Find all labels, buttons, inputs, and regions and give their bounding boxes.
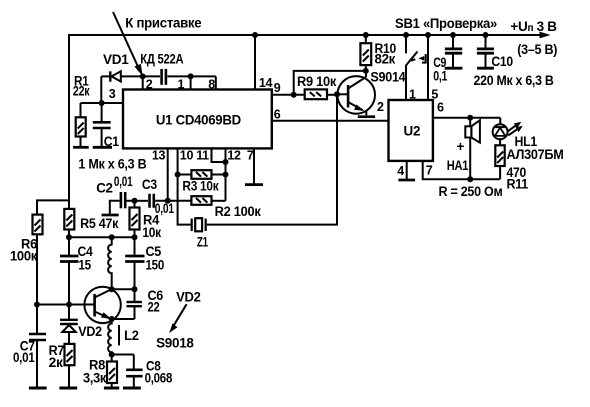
svg-text:10: 10: [180, 149, 194, 163]
svg-text:22к: 22к: [73, 84, 90, 99]
wire U2 pin7 to bottom rail: [423, 161, 500, 179]
capacitor (pin2-pin1): [160, 69, 163, 85]
node junction at 190.6,76.4: [188, 73, 194, 79]
svg-text:SB1 «Проверка»: SB1 «Проверка»: [395, 16, 497, 31]
op-amp U1: [123, 90, 272, 149]
svg-text:Z1: Z1: [197, 234, 209, 249]
wire top supply rail: [69, 34, 543, 36]
capacitor C2: [110, 201, 120, 214]
ground under U2 pin4: [398, 179, 415, 182]
svg-text:220 Мк х 6,3 В: 220 Мк х 6,3 В: [474, 73, 554, 88]
node junction at 69,304.5: [66, 302, 72, 308]
LED HL1: [499, 118, 501, 125]
svg-text:0,01: 0,01: [114, 174, 133, 189]
node junction at 428,35: [425, 32, 431, 38]
node +Un arrowhead: [540, 32, 551, 39]
wire base column to Z1: [207, 94, 337, 224]
svg-text:6: 6: [437, 101, 444, 115]
svg-text:R5 47к: R5 47к: [80, 216, 119, 231]
node junction at 69,237.2: [66, 234, 72, 240]
wire pin12 stem: [225, 148, 227, 200]
capacitor C9: [452, 35, 454, 48]
node junction at 142.7,76.4: [140, 73, 146, 79]
svg-text:C1: C1: [104, 134, 120, 149]
svg-text:82к: 82к: [375, 51, 396, 66]
emitter bar: [358, 115, 375, 118]
svg-text:0,068: 0,068: [145, 371, 173, 386]
node junction at 470.2,179.3: [467, 176, 473, 182]
ground under C10: [477, 67, 494, 70]
svg-text:7: 7: [247, 149, 254, 163]
svg-text:7: 7: [426, 163, 433, 177]
ground under C8: [123, 387, 141, 390]
wire C6 to emitter: [112, 318, 135, 320]
resistor R11: [495, 145, 504, 166]
wire pin7 stem: [253, 148, 255, 183]
svg-text:VD1: VD1: [103, 52, 129, 67]
speaker HA1: [469, 118, 471, 127]
svg-text:U1 CD4069BD: U1 CD4069BD: [156, 112, 242, 127]
wire U2 pin5 stem: [427, 35, 429, 100]
svg-text:К приставке: К приставке: [125, 15, 202, 30]
wire pin9 to R9: [272, 94, 305, 96]
svg-text:2: 2: [146, 78, 153, 92]
wire U2 pin6 to HA1/HL1: [433, 117, 500, 119]
node junction at 470.2,117.8: [467, 115, 473, 121]
node junction at 134.5,289.3: [132, 286, 138, 292]
svg-text:+Uп 3 В: +Uп 3 В: [510, 19, 557, 34]
svg-text:R9 10к: R9 10к: [297, 74, 337, 89]
svg-text:3,3к: 3,3к: [83, 371, 107, 386]
svg-text:15: 15: [78, 257, 91, 272]
svg-text:R3 10к: R3 10к: [182, 178, 218, 193]
resistor R9: [305, 89, 327, 99]
ground under R7: [59, 387, 77, 390]
capacitor C8: [133, 355, 135, 370]
switch SB1: [405, 35, 407, 53]
svg-text:0,01: 0,01: [13, 350, 35, 365]
wire L2 bottom node: [112, 354, 134, 356]
ground under C1: [93, 146, 112, 149]
diode VD1: [100, 76, 102, 103]
wire jog to R6: [37, 200, 69, 215]
svg-text:150: 150: [146, 257, 165, 272]
ground under C2: [102, 214, 119, 217]
node junction at 365.8,35: [363, 32, 369, 38]
node junction at 177.6,174.5: [175, 172, 181, 178]
svg-text:13: 13: [152, 149, 166, 163]
capacitor C3: [135, 200, 149, 202]
svg-text:0,1: 0,1: [433, 69, 448, 84]
svg-text:8: 8: [208, 78, 215, 92]
svg-text:9: 9: [274, 81, 281, 95]
svg-text:C10: C10: [491, 54, 513, 69]
svg-text:5: 5: [431, 87, 438, 101]
node junction at 225.5,174.5: [223, 172, 229, 178]
wire pin10 stem down to Z1: [178, 148, 191, 224]
node junction at 134.5,237.2: [132, 234, 138, 240]
svg-text:3: 3: [109, 87, 116, 101]
resistor R3: [178, 174, 192, 176]
node junction at 406,35: [403, 32, 409, 38]
capacitor C7: [29, 333, 46, 336]
svg-text:22: 22: [148, 300, 160, 315]
LED arrows: [507, 125, 517, 132]
node junction at 453,35: [450, 32, 456, 38]
wire left rail vertical: [68, 34, 70, 210]
resistor R10: [365, 35, 367, 43]
wire U1 pin6 to U2 pin2: [272, 120, 389, 122]
resistor R8: [111, 355, 113, 362]
node junction at 337,94.3: [334, 91, 340, 97]
svg-text:2к: 2к: [49, 355, 64, 370]
resistor R1: [80, 103, 82, 117]
node junction at 111.7,237.2: [109, 234, 115, 240]
arrow annotation VD2/S9018: [172, 304, 187, 328]
node junction at 111.7,319: [109, 316, 115, 322]
node junction at 293.7,94.8: [291, 92, 297, 98]
capacitor C4: [60, 255, 79, 258]
svg-text:VD2: VD2: [78, 324, 102, 339]
resistor R7: [65, 344, 75, 365]
svg-text:14: 14: [259, 76, 273, 90]
wire pin9 node up to collector node: [294, 71, 366, 95]
node junction at 167.7,200.8: [165, 198, 171, 204]
wire pin1 stem: [190, 76, 192, 89]
resistor R4: [134, 201, 136, 208]
svg-text:(3–5 В): (3–5 В): [517, 42, 557, 57]
svg-text:R2 100к: R2 100к: [215, 204, 262, 219]
wire base line of VT2: [37, 304, 95, 306]
node junction at 101.6,103: [99, 100, 105, 106]
svg-text:6: 6: [274, 108, 281, 122]
wire R6 bottom to base node: [36, 234, 38, 333]
resistor R6: [33, 215, 43, 235]
node junction at 111.7,289.3: [109, 286, 115, 292]
svg-text:4: 4: [397, 164, 404, 178]
svg-text:10к: 10к: [142, 225, 161, 240]
ground under R8: [104, 387, 119, 390]
transistor Q1 S9014: [337, 76, 375, 114]
svg-text:12: 12: [227, 149, 241, 163]
wire arrow К приставке: [113, 12, 140, 70]
wire mid node rail: [69, 236, 135, 238]
svg-text:VD2: VD2: [176, 290, 201, 305]
resistor R5: [64, 209, 74, 230]
transistor VT2 S9018: [84, 287, 120, 323]
wire pin11 jog: [212, 148, 226, 162]
svg-text:C3: C3: [142, 177, 158, 192]
wire pin2 stem: [142, 76, 144, 89]
svg-text:C2: C2: [96, 181, 113, 196]
inductor L2: [108, 319, 112, 355]
capacitor C6: [134, 289, 136, 301]
svg-text:S9018: S9018: [156, 336, 194, 351]
svg-text:L2: L2: [124, 328, 139, 343]
svg-text:HA1: HA1: [447, 158, 469, 173]
resistor R2: [191, 196, 211, 205]
wire pin13 stem: [167, 148, 169, 200]
crystal Z1: [191, 219, 193, 231]
wire R5 bottom to node: [68, 230, 70, 256]
ground under U1 pin7: [245, 183, 263, 186]
wire pin3 node: [81, 102, 124, 104]
svg-text:R11: R11: [507, 177, 529, 192]
wire pin8 stem: [215, 76, 217, 89]
wire U2 pin4 stem: [406, 161, 408, 179]
capacitor C1: [101, 103, 103, 122]
wire pins 1-2 cap / pin 8: [143, 75, 160, 77]
inductor L1 (collector coil): [108, 237, 112, 289]
node junction at 365.8,70.9: [363, 68, 369, 74]
svg-text:S9014: S9014: [370, 70, 406, 85]
svg-text:+: +: [457, 139, 465, 154]
svg-text:1 Мк х 6,3 В: 1 Мк х 6,3 В: [78, 157, 147, 172]
svg-text:R = 250 Ом: R = 250 Ом: [439, 184, 503, 199]
svg-text:1: 1: [178, 78, 185, 92]
svg-text:КД 522А: КД 522А: [140, 51, 183, 66]
svg-text:АЛ307БМ: АЛ307БМ: [507, 147, 564, 162]
svg-text:2: 2: [377, 100, 384, 114]
node junction at 485.5,35: [483, 32, 489, 38]
node junction at 111.7,354.5: [109, 352, 115, 358]
capacitor C5: [134, 237, 136, 254]
node junction at 134.5,200.8: [132, 198, 138, 204]
node junction at 37,304.5: [34, 302, 40, 308]
wire pin14 stem: [254, 35, 256, 90]
ground under C7: [29, 387, 47, 390]
ground under C9: [445, 67, 463, 70]
svg-text:1: 1: [409, 87, 416, 101]
svg-text:11: 11: [196, 149, 209, 163]
svg-text:U2: U2: [404, 124, 421, 139]
varicap VD2: [60, 319, 78, 321]
node junction at 225.5,162: [223, 159, 229, 165]
node junction at 255,35: [252, 32, 258, 38]
capacitor C10: [485, 35, 487, 48]
svg-text:100к: 100к: [10, 249, 38, 264]
op-amp U2: [389, 100, 433, 161]
ground under R1: [73, 146, 89, 149]
wire collector node: [112, 288, 135, 290]
